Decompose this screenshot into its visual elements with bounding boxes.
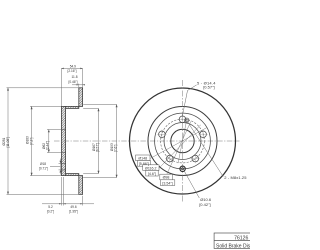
svg-text:Ø98: Ø98	[163, 176, 170, 180]
svg-text:Solid Brake Disc: Solid Brake Disc	[216, 243, 250, 249]
svg-text:54.9: 54.9	[70, 64, 76, 68]
svg-text:[2.16"]: [2.16"]	[67, 69, 76, 73]
svg-text:11.8: 11.8	[72, 75, 78, 79]
svg-text:[3.54"]: [3.54"]	[162, 181, 172, 185]
svg-text:2 - M8x1.25: 2 - M8x1.25	[224, 175, 247, 180]
svg-text:[0.46"]: [0.46"]	[68, 80, 77, 84]
svg-text:Ø18: Ø18	[40, 162, 46, 166]
svg-text:[2.44"]: [2.44"]	[46, 141, 50, 150]
svg-text:5.2: 5.2	[48, 205, 53, 209]
svg-text:[7.2"]: [7.2"]	[29, 138, 33, 145]
svg-text:[1.95"]: [1.95"]	[69, 210, 78, 214]
svg-text:49.6: 49.6	[70, 205, 76, 209]
svg-text:Ø116.2: Ø116.2	[145, 166, 157, 170]
svg-text:[0.57"]: [0.57"]	[203, 84, 214, 89]
svg-text:[0.42"]: [0.42"]	[199, 202, 210, 207]
svg-text:[0.71"]: [0.71"]	[39, 167, 48, 171]
svg-text:[11.06"]: [11.06"]	[6, 137, 10, 148]
svg-text:Ø148: Ø148	[138, 157, 147, 161]
svg-text:[4.6"]: [4.6"]	[148, 172, 156, 176]
svg-text:[7.6"]: [7.6"]	[114, 145, 118, 152]
svg-text:[6.57"]: [6.57"]	[96, 143, 100, 152]
svg-text:[0.2"]: [0.2"]	[47, 210, 54, 214]
svg-text:76126: 76126	[234, 236, 248, 242]
